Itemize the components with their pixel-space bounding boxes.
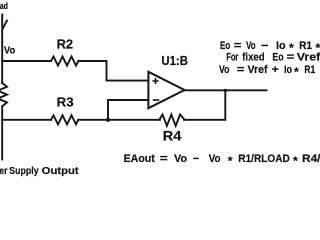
op-amp plus sign (153, 78, 160, 100)
svg-text:R3: R3 (57, 96, 74, 110)
resistor R3 (51, 115, 78, 124)
svg-text:+: + (272, 64, 279, 76)
svg-text:R1: R1 (299, 40, 312, 52)
svg-text:Io: Io (276, 40, 286, 52)
formula line 1: Eo = Vo - Io * R1 * (220, 40, 320, 55)
svg-text:Vref: Vref (297, 52, 320, 64)
svg-text:R1/RLOAD: R1/RLOAD (238, 153, 290, 165)
svg-text:EAout: EAout (124, 153, 156, 165)
svg-text:Output: Output (42, 166, 80, 177)
svg-text:R1: R1 (304, 64, 315, 76)
svg-text:*: * (228, 154, 233, 168)
wire left vertical upper (1, 15, 3, 84)
op-amp minus sign (153, 99, 159, 101)
svg-text:Vo: Vo (4, 45, 15, 56)
wiper arrow on RLoad (3, 21, 7, 29)
svg-text:Vo: Vo (209, 153, 221, 165)
svg-text:R4/: R4/ (302, 153, 320, 165)
svg-text:er: er (0, 166, 8, 177)
junction output node (224, 89, 227, 92)
wire R4 to output node (184, 90, 225, 119)
svg-text:Vref: Vref (248, 64, 268, 76)
formula line 3: Vo = Vref + Io * R1 (219, 64, 315, 79)
wire op-amp output (185, 89, 267, 91)
formula EAout = Vo - Vo * R1/RLOAD * R4/R3 (124, 153, 320, 168)
resistor RLoad (vertical zigzag, cut at left edge) (0, 83, 7, 106)
svg-text:−: − (193, 153, 199, 165)
svg-text:Eo: Eo (220, 40, 231, 52)
svg-text:*: * (293, 154, 298, 168)
wire op-amp minus input (108, 100, 148, 120)
svg-text:fixed: fixed (242, 52, 265, 64)
wire R3 to R4 (78, 119, 160, 121)
svg-text:Io: Io (284, 64, 292, 76)
svg-text:=: = (287, 52, 295, 64)
wire left vertical lower (1, 106, 3, 159)
svg-text:*: * (294, 65, 299, 79)
svg-text:=: = (160, 153, 168, 165)
op-amp U1:B triangle (148, 72, 184, 108)
svg-text:=: = (234, 40, 242, 52)
svg-text:R4: R4 (163, 129, 182, 144)
svg-text:−: − (261, 40, 269, 52)
label Power Supply Output (cut at left edge) (0, 166, 79, 177)
svg-text:Supply: Supply (9, 166, 39, 177)
svg-text:Eo: Eo (272, 52, 284, 64)
svg-text:R2: R2 (57, 38, 74, 52)
svg-text:Vo: Vo (174, 153, 187, 165)
svg-text:Vo: Vo (219, 64, 230, 76)
resistor R2 (51, 57, 78, 66)
resistor R4 (159, 115, 184, 126)
wire node to R3 (2, 119, 51, 121)
junction feedback node (106, 118, 110, 122)
svg-text:ad: ad (0, 1, 8, 11)
svg-text:=: = (237, 64, 245, 76)
svg-text:Vo: Vo (246, 40, 256, 52)
formula line 2: For fixed Eo = Vref (226, 52, 320, 64)
wire node Vo to R2 (2, 60, 51, 62)
wire R2 to op-amp plus input (78, 61, 148, 81)
svg-text:U1:B: U1:B (161, 54, 188, 68)
svg-text:For: For (226, 52, 238, 64)
